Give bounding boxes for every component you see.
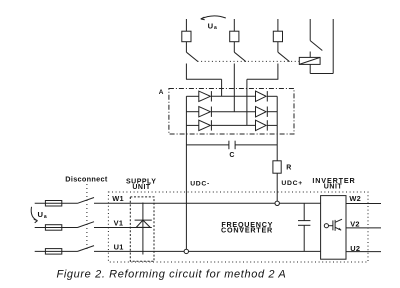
phase line L1 top vertical — [185, 19, 187, 52]
wire L3 below switch — [277, 64, 279, 80]
svg-text:R: R — [286, 165, 291, 172]
bridge left bus (UDC- riser) — [185, 96, 187, 251]
frequency converter dotted enclosure — [108, 192, 368, 262]
bridge row2 left wire — [186, 111, 198, 113]
svg-text:UDC+: UDC+ — [281, 180, 303, 187]
capacitor C wires — [186, 144, 277, 146]
supply unit diode vertical wire — [142, 203, 144, 255]
wire L1 below switch — [185, 64, 187, 80]
svg-text:UDC-: UDC- — [190, 181, 210, 188]
wire R to node — [276, 173, 278, 203]
inverter unit box — [321, 196, 346, 260]
fuse F1 — [182, 31, 191, 42]
svg-text:Figure 2. Reforming circuit f: Figure 2. Reforming circuit for method 2… — [57, 269, 287, 281]
fuse FW1 — [45, 201, 61, 207]
wire L3 drop to bridge row3 — [246, 79, 248, 125]
wire L2 drop to bridge row2 — [233, 64, 235, 112]
bridge row3 right wire — [267, 124, 277, 126]
fuse F3 — [273, 31, 282, 42]
output line W2 — [346, 203, 381, 205]
svg-text:U2: U2 — [350, 244, 360, 253]
wire L1 horizontal jog — [186, 78, 222, 80]
switch blade Q2 — [234, 52, 246, 61]
bridge right bus (UDC+ riser) upper part — [276, 96, 278, 161]
enclosure A dash-dot box — [169, 89, 294, 135]
wire to coil — [309, 52, 311, 58]
fuse FU1 — [45, 249, 61, 255]
svg-text:U: U — [38, 210, 44, 219]
node UDC- junction — [184, 249, 188, 253]
switch blade W1 — [78, 198, 95, 204]
bridge row1 left wire — [186, 95, 198, 97]
input line U1 — [35, 250, 321, 252]
switch blade Q1 — [186, 52, 198, 61]
diode D4 — [256, 91, 268, 101]
input line W1 — [35, 202, 321, 204]
arrow arc bottom Ua — [31, 207, 37, 223]
bridge row3 middle wire — [211, 124, 255, 126]
phase line L2 top vertical — [233, 19, 235, 52]
input line V1 — [35, 227, 152, 229]
supply unit dashed box — [130, 197, 154, 261]
node UDC+ junction — [275, 201, 279, 205]
wire L3 horizontal jog — [247, 78, 278, 80]
relay coil K1 — [299, 57, 320, 64]
wire below coil — [309, 64, 311, 73]
resistor R — [273, 161, 281, 173]
svg-text:W2: W2 — [349, 194, 361, 203]
diode D5 — [256, 107, 268, 117]
diode D3 — [199, 120, 212, 130]
label Ua top — [38, 22, 362, 254]
dc link capacitor plates — [298, 221, 310, 226]
dc link capacitor wires — [303, 203, 305, 251]
svg-text:U: U — [208, 22, 214, 31]
output line V2 — [346, 227, 381, 229]
arrow arc top Ua — [201, 16, 226, 20]
aux contact wire top left — [309, 19, 311, 41]
fuse FV1 — [45, 225, 61, 231]
capacitor C plates — [229, 141, 235, 150]
output line U2 — [346, 251, 381, 253]
switch blade Q3 — [278, 52, 290, 61]
svg-text:V1: V1 — [114, 218, 124, 227]
aux switch blade — [310, 41, 322, 51]
svg-text:Disconnect: Disconnect — [65, 174, 108, 183]
diode D6 — [256, 120, 268, 130]
svg-text:CONVERTER: CONVERTER — [221, 226, 273, 235]
svg-text:C: C — [229, 152, 234, 159]
switch blade U1 — [78, 246, 95, 252]
svg-text:U1: U1 — [114, 242, 124, 251]
svg-text:W1: W1 — [112, 194, 124, 203]
svg-text:V2: V2 — [350, 220, 360, 229]
svg-text:a: a — [214, 25, 217, 31]
switch blade V1 — [78, 222, 95, 228]
bridge row2 right wire — [267, 111, 277, 113]
wire L1 drop to bridge row1 — [221, 79, 223, 96]
supply unit diode — [135, 220, 152, 227]
diode D2 — [199, 107, 212, 117]
svg-text:UNIT: UNIT — [132, 184, 151, 191]
diode D1 — [199, 91, 212, 101]
bridge row1 right wire — [267, 95, 277, 97]
transistor symbol in inverter — [324, 219, 342, 231]
svg-text:a: a — [44, 214, 47, 220]
svg-text:UNIT: UNIT — [324, 183, 343, 190]
disconnect gang dotted vertical — [86, 184, 88, 252]
bridge row2 middle wire — [211, 111, 255, 113]
bridge row3 left wire — [186, 124, 198, 126]
svg-text:A: A — [159, 89, 164, 96]
aux loop right vertical — [332, 19, 334, 74]
dotted gang line of disconnect switches — [198, 60, 300, 62]
wire bottom of aux loop — [310, 73, 333, 75]
phase line L3 top vertical — [277, 19, 279, 52]
bridge row1 middle wire — [211, 95, 255, 97]
fuse F2 — [230, 31, 239, 42]
